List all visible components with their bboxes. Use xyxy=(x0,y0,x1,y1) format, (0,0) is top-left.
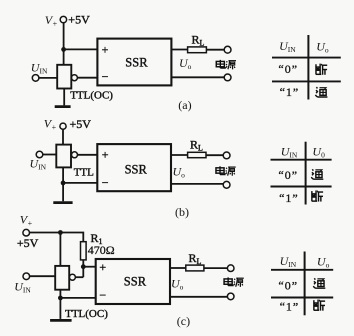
table b header rule xyxy=(271,159,332,161)
wire SSR to RL (b) xyxy=(171,154,188,156)
wire bubble to R1 vertical (c) xyxy=(75,276,83,278)
resistor R1 (c) xyxy=(81,242,87,260)
table a row rule xyxy=(272,80,341,82)
TTL(OC) gate (c) xyxy=(55,266,69,290)
wire TTL to ground (b) xyxy=(62,167,64,201)
label 电源 (c) xyxy=(224,277,244,286)
wire TTL to ground (a) xyxy=(63,89,65,106)
wire junction to SSR + (c) xyxy=(83,266,95,268)
wire bubble to SSR + (b) xyxy=(78,154,98,156)
svg-text:+: + xyxy=(102,43,109,57)
svg-text:TTL(OC): TTL(OC) xyxy=(65,308,108,320)
wire U_IN to TTL (c) xyxy=(30,275,56,277)
svg-text:SSR: SSR xyxy=(125,163,148,177)
junction R1/SSR+ (c) xyxy=(81,264,86,269)
inverter bubble (c) xyxy=(69,274,75,280)
svg-text:−: − xyxy=(102,176,109,190)
svg-text:−: − xyxy=(102,69,109,83)
junction V+/SSR (a) xyxy=(61,47,66,52)
svg-text:+: + xyxy=(102,147,109,161)
svg-text:(c): (c) xyxy=(177,314,190,328)
svg-text:“1”: “1” xyxy=(280,300,300,314)
terminal U_IN (a) xyxy=(32,75,39,82)
table b row rule xyxy=(271,186,332,188)
TTL(OC) gate (a) xyxy=(57,65,71,89)
svg-text:+5V: +5V xyxy=(68,13,90,27)
label 电源 (b) xyxy=(216,166,236,175)
table a cell tong xyxy=(315,87,327,97)
terminal +5V (a) xyxy=(60,16,66,22)
junction TTL/SSR- (c) xyxy=(58,296,63,301)
junction V+/TTL (c) xyxy=(58,230,63,235)
terminal power top (a) xyxy=(224,46,231,53)
resistor RL (b) xyxy=(188,152,206,157)
table c row rule xyxy=(271,297,333,299)
wire junction to SSR - (b) xyxy=(63,182,97,184)
inverter bubble (b) xyxy=(72,152,78,158)
wire SSR to terminal bottom (b) xyxy=(171,183,223,185)
table c cell duan xyxy=(314,300,325,311)
svg-text:“0”: “0” xyxy=(278,168,298,182)
wire junction to SSR - (c) xyxy=(60,297,95,299)
wire SSR to terminal bottom (c) xyxy=(170,296,227,298)
wire TTL to ground (c) xyxy=(59,290,61,319)
svg-text:“1”: “1” xyxy=(280,85,300,99)
terminal power bottom (b) xyxy=(223,181,230,188)
svg-text:(b): (b) xyxy=(175,205,189,219)
terminal power top (b) xyxy=(223,152,230,159)
terminal +5V (b) xyxy=(60,123,66,129)
svg-text:−: − xyxy=(99,288,106,302)
resistor RL (a) xyxy=(188,47,207,53)
resistor RL (c) xyxy=(186,265,204,271)
svg-text:(a): (a) xyxy=(178,98,191,112)
terminal U_IN (b) xyxy=(36,151,43,158)
wire V+ down to TTL (a) xyxy=(63,23,65,65)
terminal power bottom (a) xyxy=(224,74,231,81)
label 电源 (a) xyxy=(216,60,236,69)
ground (c) xyxy=(50,319,72,322)
table c cell tong xyxy=(313,278,325,288)
svg-text:TTL: TTL xyxy=(74,166,94,178)
svg-text:+5V: +5V xyxy=(70,117,92,131)
table c column divider xyxy=(304,252,306,316)
wire bubble to SSR - (a) xyxy=(77,77,97,79)
wire V+ to R1 (c) xyxy=(30,233,84,242)
node V+ (a) xyxy=(45,13,58,29)
wire U_IN to TTL (b) xyxy=(43,154,57,156)
terminal power top (c) xyxy=(227,265,234,272)
SSR module (a) xyxy=(97,39,171,86)
svg-text:470Ω: 470Ω xyxy=(88,243,115,257)
table a column divider xyxy=(307,35,309,100)
table b cell tong xyxy=(311,169,323,179)
svg-text:“0”: “0” xyxy=(278,62,298,76)
table a cell duan xyxy=(316,64,327,75)
wire junction to SSR + (a) xyxy=(64,48,98,50)
SSR module (b) xyxy=(97,144,171,191)
table b column divider xyxy=(305,142,307,205)
terminal +5V (c) xyxy=(23,229,30,236)
inverter bubble (a) xyxy=(71,75,77,81)
wire RL to terminal (b) xyxy=(206,154,223,156)
junction TTL/SSR- (b) xyxy=(61,181,66,186)
table a header rule xyxy=(272,57,341,59)
svg-text:SSR: SSR xyxy=(124,274,147,288)
terminal U_IN (c) xyxy=(23,273,30,280)
svg-text:SSR: SSR xyxy=(125,56,148,70)
svg-text:+5V: +5V xyxy=(17,236,39,250)
wire SSR to terminal bottom (a) xyxy=(171,76,224,78)
SSR module (c) xyxy=(96,259,170,304)
wire RL to terminal (c) xyxy=(204,267,228,269)
ground (a) xyxy=(55,105,71,108)
svg-text:“0”: “0” xyxy=(278,279,298,293)
wire junction down to TTL (c) xyxy=(59,233,61,266)
wire U_IN to TTL (a) xyxy=(39,77,57,79)
svg-text:+: + xyxy=(99,260,106,274)
wire SSR to RL (c) xyxy=(170,267,186,269)
svg-text:TTL(OC): TTL(OC) xyxy=(70,90,113,102)
terminal power bottom (c) xyxy=(227,293,234,300)
ground (b) xyxy=(53,201,72,204)
table c header rule xyxy=(271,269,333,271)
wire R1 down to bubble wire (c) xyxy=(82,260,84,277)
wire SSR to RL (a) xyxy=(171,49,187,51)
TTL gate (b) xyxy=(56,145,71,168)
wire V+ down to TTL (b) xyxy=(62,129,64,144)
svg-text:“1”: “1” xyxy=(279,191,299,205)
wire RL to terminal (a) xyxy=(206,49,224,51)
table b cell duan xyxy=(312,190,323,201)
